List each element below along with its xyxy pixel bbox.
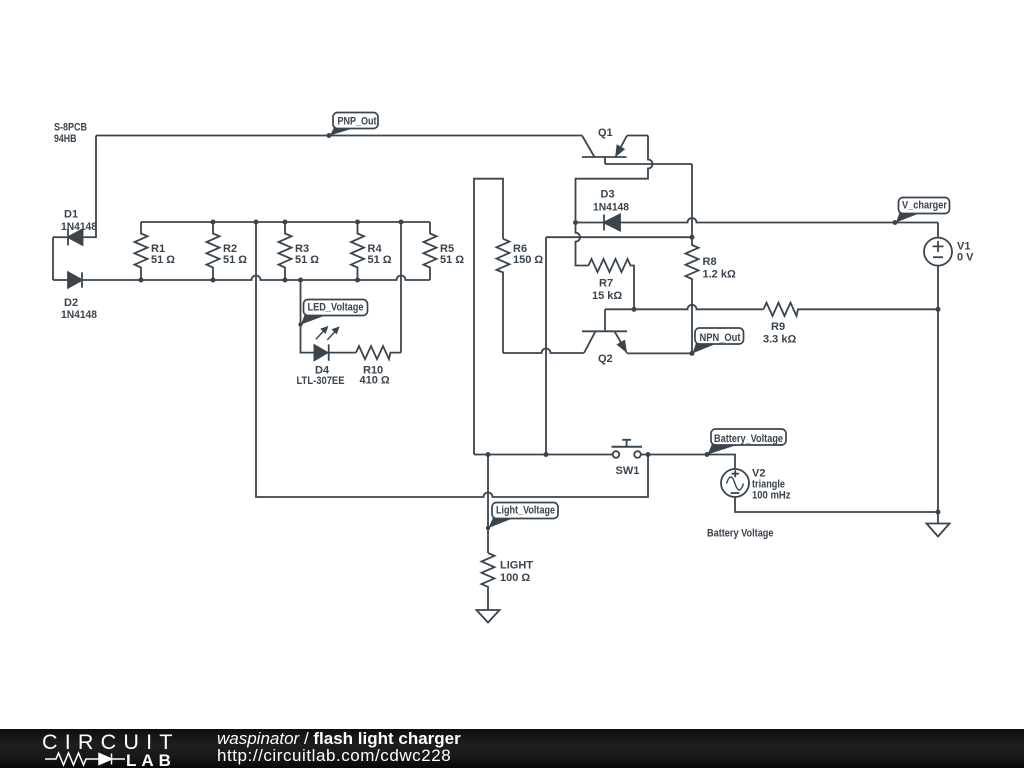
node dot Light label <box>486 526 490 530</box>
svg-text:D2: D2 <box>64 297 78 309</box>
svg-text:D3: D3 <box>601 189 615 201</box>
svg-text:1N4148: 1N4148 <box>61 221 97 233</box>
resistor R9 <box>764 303 939 316</box>
node dot PNP_Out <box>327 133 332 138</box>
ground light <box>477 610 500 623</box>
resistor R5 <box>424 222 437 280</box>
svg-text:94HB: 94HB <box>54 133 77 145</box>
transistor Q2 <box>582 309 692 353</box>
voltage source V1 <box>924 223 952 310</box>
wire light branch <box>487 455 489 554</box>
svg-text:100 mHz: 100 mHz <box>752 490 791 502</box>
svg-text:Q1: Q1 <box>598 127 613 139</box>
logo diode <box>99 754 112 765</box>
wire LED branch left <box>301 280 315 353</box>
svg-text:51 Ω: 51 Ω <box>368 254 392 266</box>
flag LED_Voltage <box>301 300 368 325</box>
resistor R2 <box>207 222 220 280</box>
wire Q1 base to R8 top <box>605 163 692 165</box>
wire vertical to D1 <box>95 136 97 238</box>
footer bar <box>0 729 1024 768</box>
node dot V_charger <box>893 220 898 225</box>
svg-text:0 V: 0 V <box>957 252 974 264</box>
node dots bottom rail <box>139 278 144 283</box>
svg-text:15 kΩ: 15 kΩ <box>592 290 622 302</box>
svg-text:R8: R8 <box>703 256 717 268</box>
node dot base join <box>632 307 637 312</box>
svg-text:LTL-307EE: LTL-307EE <box>297 375 345 387</box>
flag PNP_Out <box>330 113 378 136</box>
ground right <box>927 512 950 537</box>
svg-text:D1: D1 <box>64 209 78 221</box>
svg-text:Q2: Q2 <box>598 353 613 365</box>
flag Light_Voltage <box>489 503 559 529</box>
resistor R8 <box>686 164 699 353</box>
logo text CIRCUIT <box>42 730 180 755</box>
wire mid vertical x=546 <box>545 237 547 454</box>
LED D4 arrows <box>316 327 339 340</box>
svg-text:NPN_Out: NPN_Out <box>700 332 741 344</box>
svg-text:LED_Voltage: LED_Voltage <box>308 302 364 314</box>
node dot NPN_Out <box>690 351 695 356</box>
svg-text:1.2 kΩ: 1.2 kΩ <box>703 269 736 281</box>
transistor Q1 <box>582 136 627 165</box>
resistor R7 <box>589 259 635 309</box>
wire R7 left from D3 node (vertical hop) <box>576 223 589 266</box>
svg-text:Light_Voltage: Light_Voltage <box>496 505 555 517</box>
diode D2 <box>53 272 82 287</box>
node dot V1 bottom <box>936 307 941 312</box>
resistor R6 <box>497 239 510 353</box>
wire top rail <box>141 221 430 223</box>
svg-text:LIGHT: LIGHT <box>500 560 533 572</box>
flag Battery_Voltage <box>708 429 787 455</box>
wire Q2 base net with R9 <box>605 305 764 310</box>
svg-text:100 Ω: 100 Ω <box>500 572 530 584</box>
wire long vertical from top rail to light net <box>256 222 648 497</box>
svg-text:SW1: SW1 <box>616 465 640 477</box>
svg-text:Battery_Voltage: Battery_Voltage <box>714 433 783 445</box>
wire node row y=237 <box>546 236 692 238</box>
svg-text:51 Ω: 51 Ω <box>440 254 464 266</box>
node dots switch row <box>486 452 491 457</box>
svg-text:R9: R9 <box>771 321 785 333</box>
svg-text:410 Ω: 410 Ω <box>360 375 390 387</box>
svg-text:V_charger: V_charger <box>902 200 948 212</box>
svg-text:3.3 kΩ: 3.3 kΩ <box>763 334 796 346</box>
resistor R4 <box>351 222 364 280</box>
voltage source V2 <box>721 469 749 497</box>
wire top PNP_Out net <box>96 135 582 137</box>
node dot LED label <box>298 322 302 326</box>
wire switch row <box>474 454 613 456</box>
switch SW1 <box>612 440 643 458</box>
footer url text <box>217 747 451 765</box>
wire V1 bottom to ground <box>937 309 939 512</box>
resistor R3 <box>279 222 292 280</box>
resistor LIGHT <box>482 553 495 610</box>
footer title text <box>217 730 461 748</box>
svg-text:1N4148: 1N4148 <box>61 309 97 321</box>
svg-text:51 Ω: 51 Ω <box>223 254 247 266</box>
svg-text:Battery Voltage: Battery Voltage <box>707 528 774 540</box>
svg-text:51 Ω: 51 Ω <box>295 254 319 266</box>
logo text LAB <box>126 751 176 768</box>
svg-text:R7: R7 <box>599 278 613 290</box>
svg-text:PNP_Out: PNP_Out <box>338 116 377 128</box>
resistor R10 <box>356 346 401 359</box>
wire bridge over to R6 <box>474 179 503 455</box>
svg-text:150 Ω: 150 Ω <box>513 254 543 266</box>
resistor R1 <box>135 222 148 280</box>
wire D1 to D2 <box>52 237 54 280</box>
wire V2 bottom to ground net <box>735 497 938 512</box>
flag NPN_Out <box>693 328 744 353</box>
diode D1 <box>53 229 97 245</box>
node dot ground net <box>936 510 941 515</box>
node dot R8 top <box>690 235 695 240</box>
wire bottom rail with hops <box>82 276 430 281</box>
flag V_charger <box>896 198 950 223</box>
svg-text:1N4148: 1N4148 <box>593 202 629 214</box>
node dots top rail <box>211 220 216 225</box>
wire R10 up to top rail <box>400 222 402 353</box>
wire Q1 collector down and left to D3 <box>576 136 653 223</box>
wire SW1 right to V2 <box>641 455 735 470</box>
LED D4 <box>314 344 356 360</box>
node dot D3 left <box>573 220 578 225</box>
wire R6 bottom to Q2 collector <box>503 349 584 354</box>
svg-text:51 Ω: 51 Ω <box>151 254 175 266</box>
svg-text:S-8PCB: S-8PCB <box>54 122 87 134</box>
logo resistor zigzag <box>45 753 99 765</box>
diode D3 <box>576 215 939 231</box>
